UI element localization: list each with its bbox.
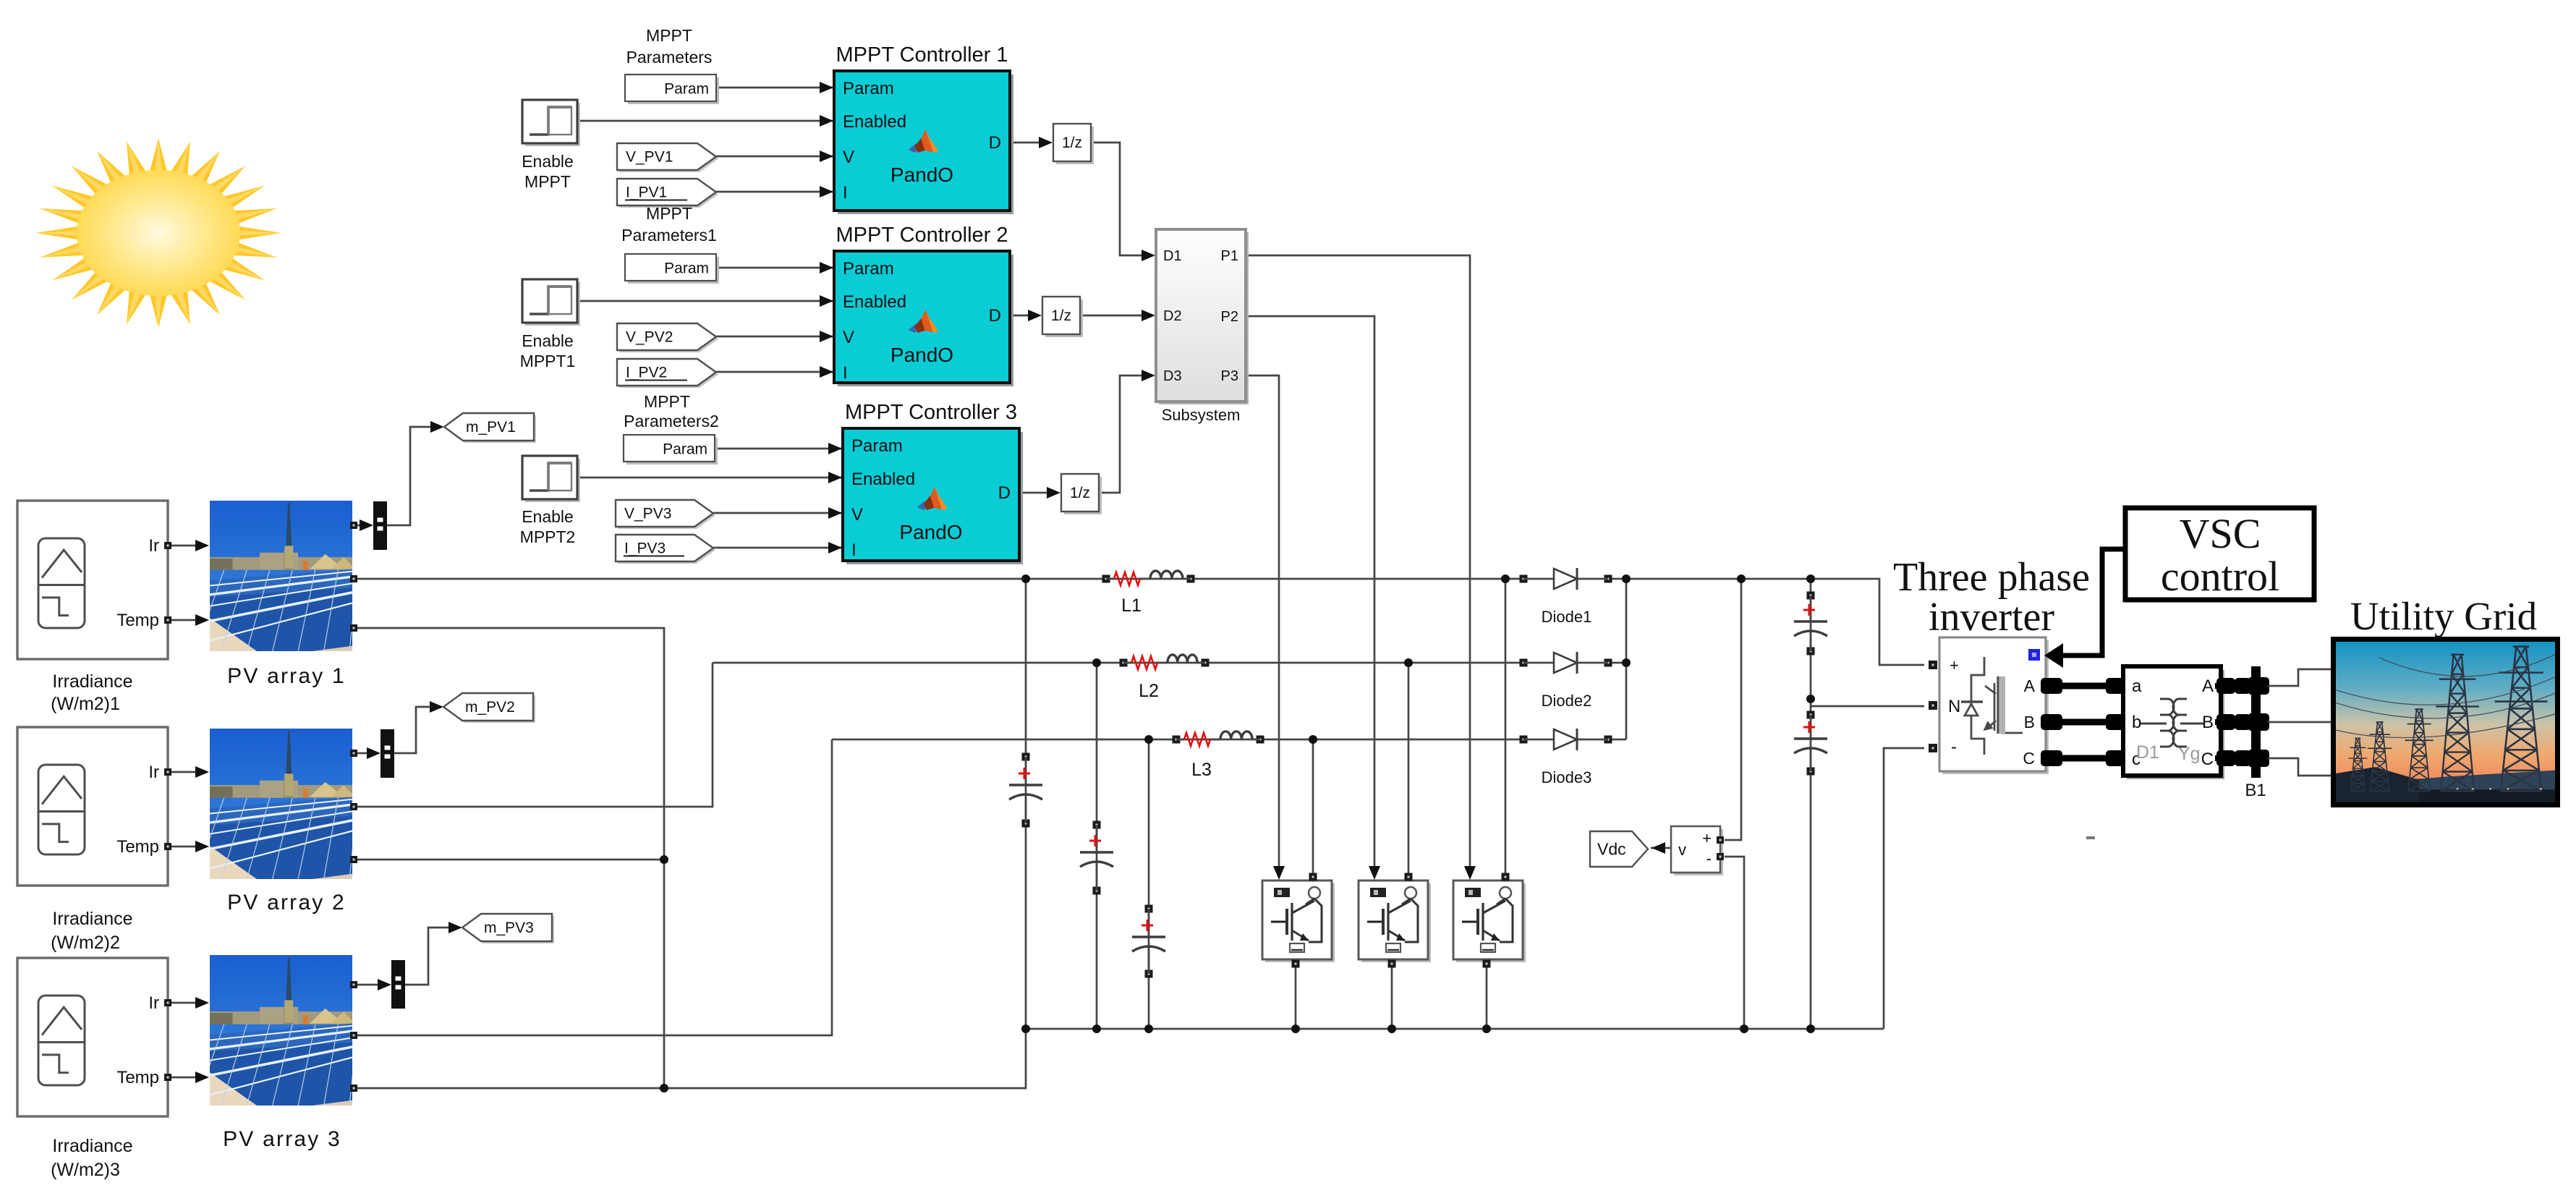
- svg-text:I_PV2: I_PV2: [626, 365, 667, 381]
- svg-text:D1: D1: [1163, 248, 1182, 264]
- svg-text:-: -: [1706, 849, 1712, 867]
- svg-text:-: -: [1951, 737, 1957, 757]
- svg-text:PandO: PandO: [890, 344, 953, 366]
- svg-text:V: V: [843, 148, 854, 167]
- svg-text:MPPT: MPPT: [524, 172, 571, 191]
- svg-text:V_PV2: V_PV2: [626, 329, 673, 346]
- svg-text:Enabled: Enabled: [843, 112, 906, 132]
- svg-text:D1: D1: [2136, 742, 2159, 763]
- svg-text:m_PV1: m_PV1: [466, 419, 516, 436]
- svg-text:Irradiance: Irradiance: [52, 909, 132, 929]
- svg-text:Irradiance: Irradiance: [52, 671, 132, 692]
- svg-text:MPPT: MPPT: [644, 392, 690, 411]
- svg-text:MPPT Controller 2: MPPT Controller 2: [836, 224, 1008, 247]
- svg-text:(W/m2)3: (W/m2)3: [51, 1160, 120, 1180]
- svg-text:D: D: [998, 483, 1011, 503]
- svg-text:I_PV1: I_PV1: [626, 184, 667, 201]
- svg-text:Ir: Ir: [148, 536, 159, 556]
- svg-text:1/z: 1/z: [1062, 135, 1082, 151]
- svg-text:D: D: [989, 306, 1001, 326]
- svg-text:control: control: [2161, 553, 2279, 600]
- svg-text:Enable: Enable: [522, 152, 574, 171]
- svg-text:P3: P3: [1221, 368, 1238, 384]
- svg-text:V: V: [851, 505, 863, 525]
- svg-text:I_PV3: I_PV3: [624, 540, 666, 557]
- svg-text:a: a: [2132, 676, 2142, 696]
- svg-text:Ir: Ir: [148, 763, 159, 782]
- svg-text:P1: P1: [1221, 248, 1238, 264]
- svg-text:L2: L2: [1139, 681, 1159, 701]
- svg-text:PandO: PandO: [890, 164, 953, 186]
- svg-text:Temp: Temp: [116, 611, 159, 630]
- svg-text:m_PV2: m_PV2: [465, 699, 515, 716]
- svg-text:PV array 3: PV array 3: [223, 1127, 341, 1151]
- svg-text:D2: D2: [1163, 308, 1182, 324]
- svg-text:C: C: [2201, 750, 2214, 769]
- svg-text:1/z: 1/z: [1051, 307, 1071, 324]
- svg-text:Param: Param: [664, 260, 709, 277]
- svg-text:Enabled: Enabled: [843, 292, 906, 312]
- svg-text:I: I: [843, 183, 848, 203]
- svg-text:Param: Param: [843, 259, 894, 279]
- svg-text:V: V: [843, 328, 854, 347]
- svg-text:Vdc: Vdc: [1597, 840, 1626, 859]
- svg-text:Temp: Temp: [116, 837, 159, 857]
- svg-text:Parameters2: Parameters2: [624, 412, 719, 430]
- svg-text:PandO: PandO: [899, 521, 962, 543]
- svg-text:Three phase: Three phase: [1893, 555, 2090, 600]
- svg-text:PV array 2: PV array 2: [227, 891, 346, 915]
- svg-text:C: C: [2023, 749, 2035, 768]
- svg-text:Enable: Enable: [522, 507, 574, 526]
- svg-text:inverter: inverter: [1929, 595, 2054, 640]
- svg-text:Ir: Ir: [148, 993, 159, 1013]
- svg-text:Subsystem: Subsystem: [1162, 406, 1241, 424]
- svg-text:Utility Grid: Utility Grid: [2350, 594, 2537, 638]
- svg-text:B: B: [2024, 713, 2035, 731]
- svg-text:Diode3: Diode3: [1542, 768, 1592, 786]
- svg-text:I: I: [843, 363, 848, 383]
- svg-text:MPPT Controller 1: MPPT Controller 1: [836, 43, 1008, 67]
- svg-text:m_PV3: m_PV3: [484, 920, 534, 936]
- svg-text:Param: Param: [664, 81, 709, 98]
- svg-text:MPPT: MPPT: [646, 26, 692, 45]
- svg-text:Temp: Temp: [116, 1068, 159, 1087]
- svg-text:MPPT1: MPPT1: [520, 352, 576, 370]
- svg-text:Param: Param: [663, 441, 707, 458]
- svg-text:Parameters1: Parameters1: [621, 226, 717, 245]
- svg-text:(W/m2)1: (W/m2)1: [51, 694, 120, 714]
- svg-text:L1: L1: [1121, 595, 1142, 616]
- svg-text:N: N: [1948, 697, 1960, 716]
- svg-text:V_PV1: V_PV1: [626, 149, 673, 166]
- svg-text:+: +: [1950, 656, 1959, 674]
- svg-text:(W/m2)2: (W/m2)2: [51, 933, 120, 953]
- svg-text:I: I: [851, 540, 856, 560]
- svg-text:VSC: VSC: [2180, 510, 2261, 557]
- svg-text:+: +: [1702, 829, 1712, 847]
- svg-text:b: b: [2132, 713, 2141, 732]
- svg-text:D3: D3: [1163, 368, 1182, 384]
- svg-text:v: v: [1678, 841, 1686, 859]
- svg-text:P2: P2: [1221, 309, 1238, 325]
- svg-text:Param: Param: [851, 436, 903, 456]
- svg-text:V_PV3: V_PV3: [624, 506, 671, 522]
- svg-text:Enabled: Enabled: [851, 470, 915, 489]
- svg-text:Irradiance: Irradiance: [52, 1136, 132, 1156]
- svg-text:Param: Param: [843, 79, 894, 98]
- svg-text:B1: B1: [2245, 781, 2266, 800]
- svg-text:A: A: [2202, 676, 2214, 696]
- svg-text:Diode1: Diode1: [1542, 608, 1592, 626]
- svg-text:MPPT2: MPPT2: [520, 527, 576, 546]
- svg-text:Diode2: Diode2: [1542, 692, 1592, 710]
- svg-text:A: A: [2024, 676, 2036, 695]
- svg-text:PV array 1: PV array 1: [227, 664, 346, 688]
- svg-text:Parameters: Parameters: [626, 48, 713, 67]
- svg-text:B: B: [2202, 713, 2214, 732]
- svg-text:MPPT Controller 3: MPPT Controller 3: [845, 401, 1017, 424]
- svg-text:L3: L3: [1191, 760, 1212, 780]
- svg-text:D: D: [989, 133, 1001, 153]
- svg-text:Enable: Enable: [522, 331, 574, 350]
- svg-text:1/z: 1/z: [1070, 485, 1090, 501]
